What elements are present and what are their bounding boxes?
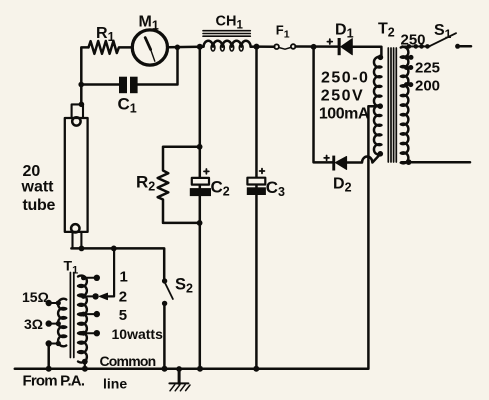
wire C1 left [81, 83, 119, 86]
wire centre tap to bottom rail [15, 106, 380, 369]
fuse F1 [274, 44, 279, 49]
rail R2 C2 vertical [199, 47, 202, 369]
capacitor C3 [260, 169, 265, 174]
svg-text:10watts: 10watts [112, 326, 164, 342]
node tap row dots [407, 44, 430, 49]
tube 20 watt envelope [65, 118, 88, 232]
node T2 centre tap [377, 103, 383, 109]
choke CH1 core [203, 31, 250, 37]
choke CH1 coil [200, 41, 257, 47]
transformer T2 left winding [374, 57, 381, 155]
transformer T2 right winding [401, 47, 409, 164]
svg-text:From P.A.: From P.A. [23, 373, 85, 390]
svg-text:1: 1 [120, 269, 128, 286]
transformer T1 right winding [78, 276, 87, 363]
svg-text:225: 225 [415, 60, 440, 77]
plus DC rail [314, 47, 333, 163]
svg-text:tube: tube [23, 197, 56, 214]
node CH1 left [197, 44, 203, 50]
svg-text:watt: watt [21, 178, 55, 195]
svg-text:250: 250 [401, 32, 426, 49]
wire M1 to CH1 [168, 46, 200, 49]
node T2 top [378, 55, 384, 61]
node T2 left bottom [378, 151, 384, 157]
diode D2 [332, 156, 335, 171]
svg-text:250V: 250V [321, 88, 364, 105]
wire T1 common down [84, 362, 86, 369]
transformer T2 core [388, 48, 396, 162]
wire CH1 to F1 [257, 45, 275, 48]
svg-text:200: 200 [415, 77, 440, 94]
transformer T1 core [70, 273, 73, 358]
diode D1 [338, 38, 341, 55]
wire From P.A. down [47, 344, 50, 369]
tube bottom cap [73, 232, 82, 248]
transformer T1 left winding [58, 299, 66, 347]
tube bottom electrode [71, 224, 79, 232]
meter M1 [132, 30, 167, 65]
T1 right taps [83, 278, 97, 333]
tube top cap [79, 102, 85, 108]
wire D2 with hop over centre-tap rail [347, 154, 381, 162]
T1 left taps [49, 303, 59, 344]
node tap 240 [404, 55, 409, 60]
wire F1 to D1 [296, 45, 338, 48]
switch S1 lever [430, 33, 457, 46]
node T2 right bottom [406, 159, 412, 165]
svg-text:250-0: 250-0 [321, 70, 369, 87]
wire C1 right up to node [138, 47, 178, 84]
svg-text:5: 5 [119, 307, 127, 324]
node R2 bottom [197, 220, 203, 226]
wire T2 bottom to right terminal [402, 161, 471, 164]
svg-text:3Ω: 3Ω [24, 316, 43, 332]
capacitor C2 [204, 169, 209, 174]
wire branch down to tap 2 [107, 248, 114, 296]
switch S2 [162, 278, 167, 283]
tube top electrode [72, 117, 80, 125]
rail C3 vertical [255, 47, 258, 369]
switch S1 right contact [455, 44, 460, 49]
svg-text:2: 2 [119, 289, 127, 306]
node tap 200 [404, 82, 409, 87]
svg-text:15Ω: 15Ω [22, 289, 49, 305]
svg-text:line: line [103, 375, 127, 391]
left rail node at C1 [78, 82, 84, 88]
capacitor C1 [119, 77, 127, 94]
ground [176, 366, 182, 372]
node tap 225 [404, 65, 409, 70]
node junction plus rail top [311, 44, 317, 50]
wire D1 to T2 top [352, 47, 381, 58]
node tube pin [79, 246, 85, 252]
wire tube bottom horizontal [71, 248, 164, 278]
node CH1 right [254, 44, 260, 50]
svg-text:100mA: 100mA [319, 106, 370, 123]
wire top rail left corner to R1 [81, 47, 88, 104]
node junction at 177 [175, 45, 181, 51]
wire 250 tap row [402, 45, 430, 47]
node R2 top [197, 144, 203, 150]
svg-text:Common: Common [100, 353, 156, 369]
bottom rail nodes [46, 366, 260, 372]
arrow to tap 2 [99, 293, 107, 299]
resistor R1 [89, 41, 132, 54]
node branch to tap arrow [111, 246, 117, 252]
resistor R2 branch [158, 147, 200, 223]
